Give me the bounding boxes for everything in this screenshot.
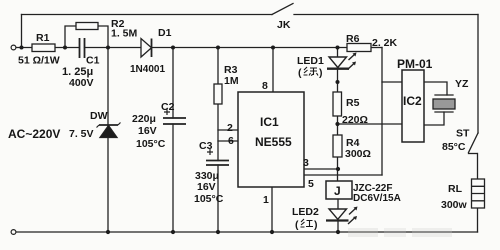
svg-text:3: 3: [303, 157, 309, 169]
svg-text:1M: 1M: [224, 75, 239, 87]
svg-text:1N4001: 1N4001: [130, 64, 165, 75]
svg-text:J: J: [334, 184, 341, 198]
svg-text:D1: D1: [158, 27, 172, 39]
svg-text:16V: 16V: [197, 181, 216, 193]
svg-text:300Ω: 300Ω: [345, 148, 371, 160]
svg-text:R5: R5: [346, 97, 360, 109]
svg-text:ST: ST: [456, 128, 470, 140]
svg-text:LED2: LED2: [292, 206, 319, 218]
svg-text:IC2: IC2: [403, 94, 422, 108]
svg-text:400V: 400V: [69, 77, 94, 89]
svg-text:5: 5: [308, 178, 314, 190]
svg-text:2: 2: [227, 122, 233, 134]
svg-text:JK: JK: [277, 19, 291, 31]
svg-text:C1: C1: [86, 55, 100, 67]
svg-text:C2: C2: [161, 101, 175, 113]
svg-text:(: (: [295, 219, 299, 231]
svg-text:IC1: IC1: [260, 115, 279, 129]
svg-text:RL: RL: [448, 183, 463, 195]
svg-text:DW: DW: [90, 110, 108, 122]
svg-text:8: 8: [262, 80, 268, 92]
svg-text:1. 5M: 1. 5M: [111, 28, 138, 40]
svg-text:105°C: 105°C: [194, 193, 224, 205]
svg-text:AC~220V: AC~220V: [8, 127, 60, 141]
svg-text:1: 1: [263, 194, 269, 206]
svg-text:): ): [314, 219, 318, 231]
svg-text:105°C: 105°C: [136, 138, 166, 150]
svg-text:DC6V/15A: DC6V/15A: [353, 193, 401, 204]
svg-text:R6: R6: [346, 33, 360, 45]
svg-text:NE555: NE555: [255, 135, 292, 149]
svg-text:51 Ω/1W: 51 Ω/1W: [18, 55, 60, 67]
svg-text:6: 6: [228, 135, 234, 147]
svg-text:PM-01: PM-01: [397, 57, 433, 71]
svg-text:300w: 300w: [441, 199, 468, 211]
svg-text:16V: 16V: [138, 125, 157, 137]
svg-text:7. 5V: 7. 5V: [69, 128, 94, 140]
svg-text:): ): [319, 67, 323, 79]
svg-text:C3: C3: [199, 140, 213, 152]
svg-text:LED1: LED1: [297, 55, 324, 67]
svg-text:R1: R1: [36, 32, 50, 44]
svg-text:85°C: 85°C: [442, 141, 466, 153]
svg-text:YZ: YZ: [455, 78, 469, 90]
svg-text:2. 2K: 2. 2K: [372, 37, 398, 49]
svg-text:220μ: 220μ: [132, 113, 156, 125]
svg-text:(: (: [298, 67, 302, 79]
svg-text:220Ω: 220Ω: [342, 114, 368, 126]
